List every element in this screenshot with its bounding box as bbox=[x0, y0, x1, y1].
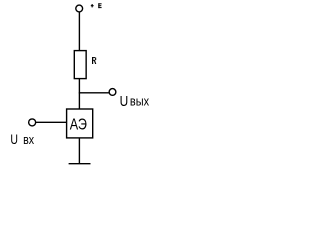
svg-text:АЭ: АЭ bbox=[70, 117, 87, 134]
label E (of +E) bbox=[98, 3, 101, 8]
label U вх bbox=[10, 132, 34, 147]
wire resistor to AE box bbox=[78, 79, 80, 109]
wire input to AE box bbox=[36, 121, 67, 123]
svg-text:вх: вх bbox=[23, 132, 34, 147]
terminal U vh (input) bbox=[29, 119, 36, 126]
svg-text:U: U bbox=[120, 93, 129, 110]
label + (of +E) bbox=[91, 4, 94, 7]
terminal U vyh (output) bbox=[109, 89, 116, 96]
label U вых bbox=[120, 93, 150, 110]
label R bbox=[92, 57, 96, 64]
svg-text:вых: вых bbox=[130, 93, 149, 108]
svg-text:U: U bbox=[10, 132, 18, 147]
wire AE box to ground bbox=[78, 138, 80, 164]
wire output branch bbox=[79, 92, 110, 94]
active element AE box bbox=[67, 109, 93, 138]
resistor R bbox=[74, 51, 86, 79]
ground bbox=[69, 163, 91, 165]
terminal +E (supply) bbox=[76, 5, 83, 12]
wire supply to resistor bbox=[78, 12, 80, 51]
